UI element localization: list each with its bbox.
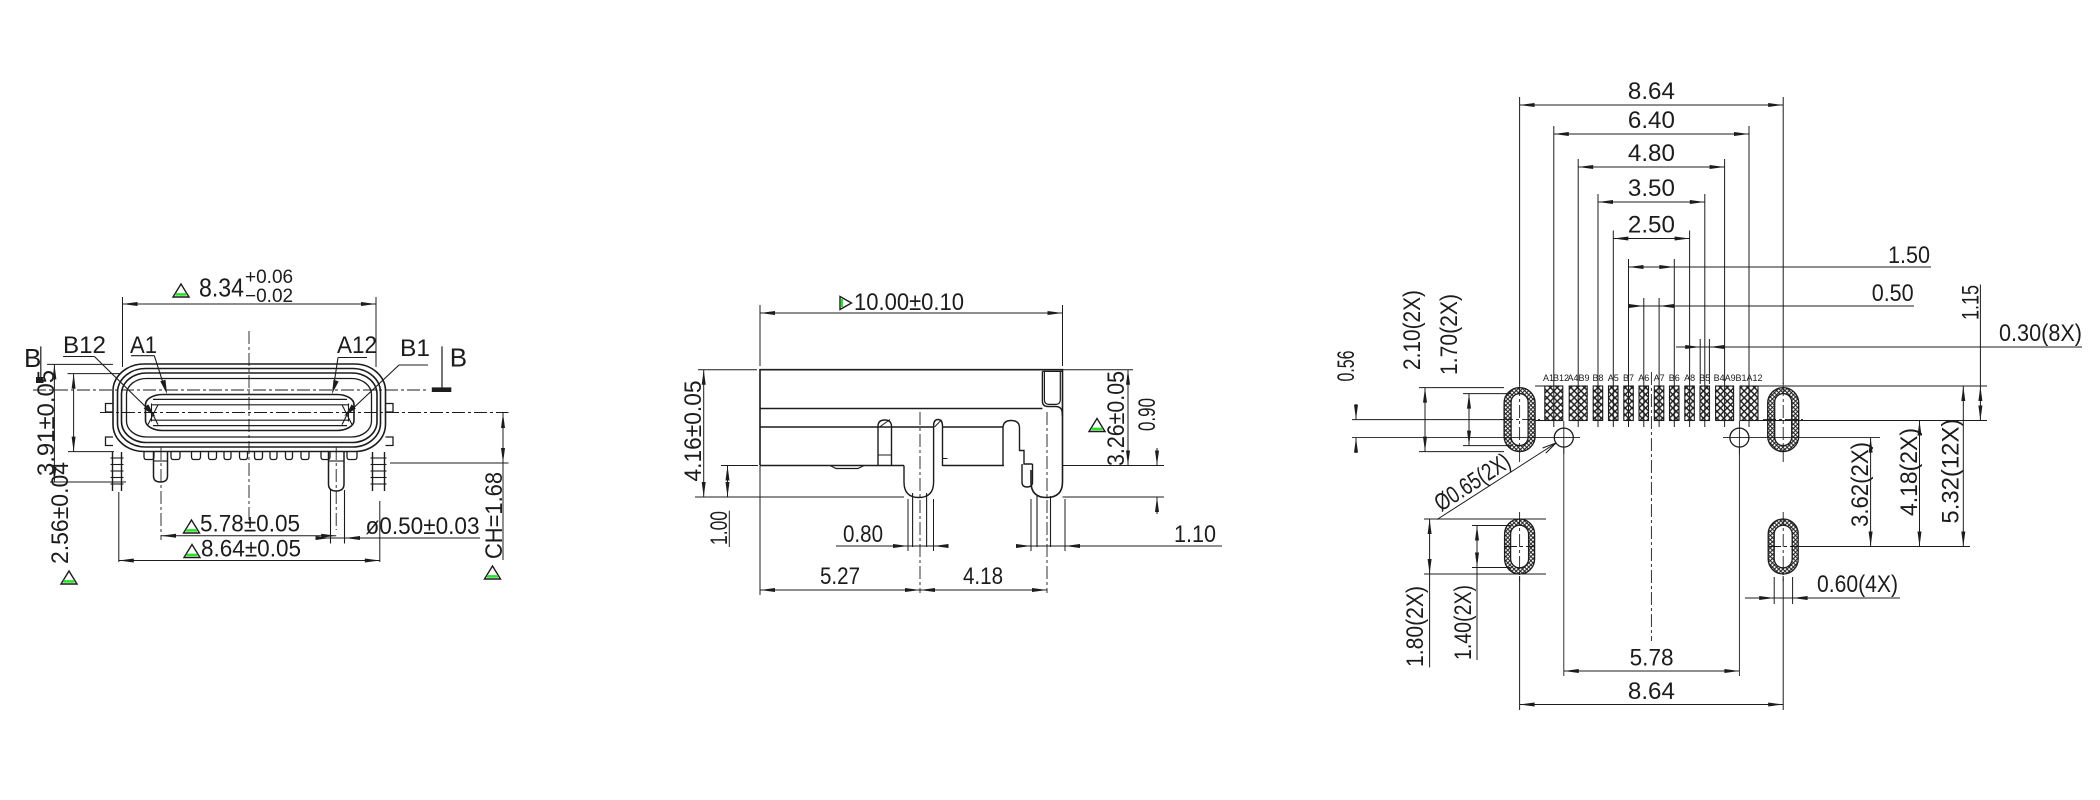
svg-text:A12: A12 — [337, 332, 377, 359]
signal pads row (hatched) — [1545, 386, 1563, 421]
svg-text:+0.06: +0.06 — [245, 267, 293, 288]
front view inner shield line — [122, 373, 378, 443]
dimension 5.78 bottom — [1564, 670, 1740, 672]
center leg pin lines — [330, 490, 332, 544]
dimension 1.70 (2X) oval hole height — [1463, 393, 1511, 395]
right ribbed board-lock peg — [373, 452, 385, 491]
side view inner line upper — [760, 408, 1042, 410]
dimension 3.50 top stack — [1597, 194, 1599, 427]
svg-text:1.15: 1.15 — [1958, 285, 1985, 320]
svg-text:5.78: 5.78 — [1630, 645, 1674, 672]
left shell side tab lower — [106, 437, 114, 446]
dimension CH=1.68 right — [390, 462, 509, 464]
dimension 1.00 left — [721, 465, 758, 467]
svg-text:A4: A4 — [1567, 373, 1578, 383]
hole extension lines to 5.78 dim — [1563, 447, 1565, 676]
lower left oval pad — [1505, 519, 1535, 574]
dimension 1.40 (2X) lower hole height — [1472, 525, 1511, 527]
front view shell inner wall — [118, 369, 381, 448]
svg-text:ø0.50±0.03: ø0.50±0.03 — [366, 513, 480, 540]
dimension 0.80 bottom left — [836, 545, 948, 547]
left 0.65 hole — [1554, 428, 1573, 447]
dimension 2.10 (2X) oval height — [1419, 387, 1504, 389]
dimension 4.18 (2X) — [1919, 421, 1921, 547]
left leg center line — [919, 412, 921, 593]
dimension 8.64 +-0.05 bottom — [118, 492, 120, 562]
top right shell notch — [1042, 371, 1062, 416]
svg-text:2.50: 2.50 — [1628, 212, 1675, 239]
left shell side tab upper — [106, 404, 114, 413]
front view vertical center line — [248, 331, 250, 524]
contact pin 1 (rounded top bar) — [878, 420, 892, 466]
datum triangle side view — [1089, 419, 1105, 432]
hole center horizontal line right — [1723, 437, 1880, 439]
dimension 3.26 +-0.05 right — [1063, 369, 1134, 371]
svg-text:4.18: 4.18 — [963, 563, 1003, 590]
dimension 3.62 (2X) — [1870, 438, 1872, 547]
svg-text:3.26±0.05: 3.26±0.05 — [1103, 371, 1130, 466]
dimension 4.18 bottom — [920, 589, 1047, 591]
dimension 1.10 bottom right — [1018, 545, 1222, 547]
dimension 0.30 (8X) pad width — [1699, 339, 1701, 384]
dimension 3.91 +-0.05 left height — [47, 363, 113, 365]
svg-text:4.80: 4.80 — [1628, 140, 1675, 167]
dimension 4.80 top stack — [1577, 159, 1579, 427]
svg-text:3.91±0.05: 3.91±0.05 — [33, 370, 60, 476]
SIDE VIEW: body outline — [760, 370, 1063, 498]
svg-text:B9: B9 — [1578, 373, 1589, 383]
svg-text:1.70(2X): 1.70(2X) — [1436, 294, 1463, 375]
dimension 8.64 top stack — [1519, 97, 1521, 384]
svg-text:0.90: 0.90 — [1134, 398, 1161, 431]
dimension 0.90 right — [1063, 496, 1165, 498]
svg-text:8.64: 8.64 — [1628, 78, 1675, 105]
svg-text:4.18(2X): 4.18(2X) — [1896, 428, 1923, 516]
dimension 5.32 (12X) — [1799, 546, 1970, 548]
dimension 5.27 bottom — [759, 466, 761, 595]
svg-text:3.62(2X): 3.62(2X) — [1847, 442, 1874, 527]
svg-text:8.64±0.05: 8.64±0.05 — [201, 536, 301, 563]
dimension 2.56 +-0.04 left — [68, 373, 121, 375]
tongue right tip bevel — [342, 404, 352, 425]
svg-text:CH=1.68: CH=1.68 — [481, 472, 508, 559]
svg-text:8.34: 8.34 — [199, 273, 244, 303]
left leg pin lines — [912, 493, 914, 547]
right leg center line — [1046, 412, 1048, 593]
svg-text:8.64: 8.64 — [1628, 678, 1675, 705]
dimension 4.16 +-0.05 left — [698, 369, 757, 371]
pad row top/bottom connecting lines — [1535, 385, 1545, 387]
svg-text:1.10: 1.10 — [1174, 521, 1216, 548]
right shell side tab lower — [386, 437, 394, 446]
svg-text:5.27: 5.27 — [820, 563, 860, 590]
dimension diameter 0.50 +-0.03 of center pin — [318, 537, 480, 539]
A-row horizontal center line — [33, 389, 429, 391]
upper right oval pad — [1768, 388, 1799, 452]
left ribbed board-lock peg — [113, 452, 122, 491]
svg-text:1.50: 1.50 — [1888, 242, 1930, 269]
svg-text:1.80(2X): 1.80(2X) — [1402, 586, 1429, 667]
side view body bottom edge — [760, 465, 904, 467]
dimension 1.50 — [1628, 259, 1630, 427]
right leg pin lines — [1036, 496, 1038, 547]
tongue horizontal center line — [100, 412, 509, 414]
dimension 0.60 (4X) lower hole width — [1773, 577, 1775, 604]
leader diameter 0.65 (2X) — [1437, 443, 1556, 520]
dimension 0.50 — [1643, 298, 1645, 427]
svg-text:4.16±0.05: 4.16±0.05 — [680, 381, 707, 482]
tongue left tip bevel — [148, 404, 158, 425]
footprint vertical center line — [1650, 372, 1652, 641]
svg-text:3.50: 3.50 — [1628, 175, 1675, 202]
SMT contact with bent foot — [1003, 421, 1033, 467]
dimension 1.80 (2X) lower oval height — [1424, 518, 1546, 520]
svg-text:B: B — [24, 343, 41, 373]
center solder leg — [329, 452, 345, 492]
tongue contact row lines — [153, 398, 347, 400]
side view small front tab — [830, 466, 864, 469]
contact pin 2 bar / through-hole leg — [904, 420, 943, 498]
svg-text:0.30(8X): 0.30(8X) — [1999, 320, 2082, 347]
dimension 8.34 +0.06/-0.02 top width — [122, 297, 124, 367]
svg-text:5.32(12X): 5.32(12X) — [1938, 419, 1965, 524]
svg-text:1.40(2X): 1.40(2X) — [1450, 585, 1477, 660]
svg-text:5.78±0.05: 5.78±0.05 — [200, 511, 300, 538]
dimension 5.78 +-0.05 bottom — [161, 535, 336, 537]
svg-text:2.56±0.04: 2.56±0.04 — [47, 462, 74, 564]
left leg center line — [160, 447, 162, 540]
svg-text:10.00±0.10: 10.00±0.10 — [854, 289, 964, 316]
right 0.65 hole — [1730, 428, 1749, 447]
dimension 1.15 pad height — [1758, 385, 1988, 387]
lower right oval pad — [1768, 519, 1798, 574]
svg-text:B1: B1 — [400, 335, 430, 362]
bent foot hook — [1022, 464, 1033, 487]
lower oval center lines — [1519, 512, 1521, 581]
right shell side tab upper — [386, 404, 394, 413]
FRONT VIEW: connector shell outer shield — [113, 364, 386, 452]
svg-text:−0.02: −0.02 — [245, 286, 293, 307]
svg-text:B12: B12 — [63, 332, 106, 359]
tongue (center tab) outline — [146, 395, 355, 431]
svg-text:0.56: 0.56 — [1333, 351, 1360, 382]
svg-text:2.10(2X): 2.10(2X) — [1399, 290, 1426, 370]
upper left oval pad — [1504, 388, 1535, 452]
svg-text:0.60(4X): 0.60(4X) — [1817, 571, 1898, 598]
side view inner line lower — [760, 426, 934, 428]
dimension 6.40 top stack — [1553, 126, 1555, 427]
front view cavity outline — [127, 379, 372, 438]
dimension 8.64 bottom — [1519, 576, 1521, 710]
upper oval center lines — [1519, 383, 1521, 463]
svg-text:A1: A1 — [130, 332, 157, 359]
center leg center line — [335, 447, 337, 530]
bottom contact tails of front view — [144, 452, 154, 460]
dimension 10.00 +-0.10 top — [759, 305, 761, 366]
svg-text:6.40: 6.40 — [1628, 107, 1675, 134]
svg-text:B: B — [450, 343, 467, 373]
dimension 0.56 left — [1352, 419, 1504, 421]
left shell through-hole leg — [154, 452, 168, 483]
svg-text:0.50: 0.50 — [1872, 280, 1914, 307]
svg-text:0.80: 0.80 — [843, 521, 883, 548]
hole center horizontal line left — [1352, 437, 1580, 439]
dimension 2.50 top stack — [1612, 231, 1614, 428]
